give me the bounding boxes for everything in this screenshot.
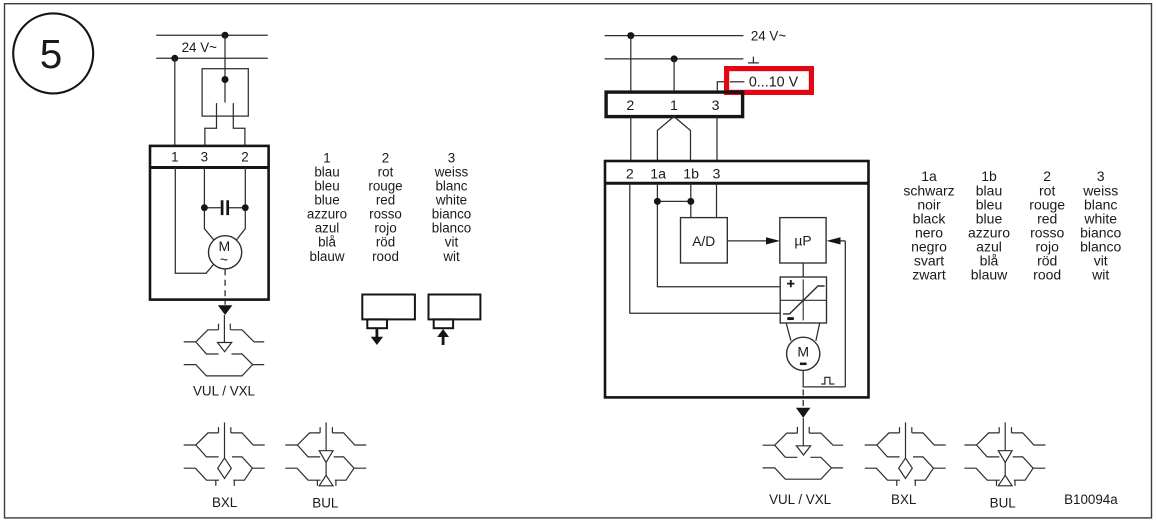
wire 1a to comparator plus input [657,183,779,287]
stem arrow head (right) [796,408,810,418]
svg-text:M: M [797,343,809,359]
feedback wire up to microprocessor [844,241,846,387]
actuator symbol stem retract (arrow up) [429,295,481,346]
svg-text:rot: rot [378,164,394,179]
connector label 1 [670,98,678,114]
connector block (right) [606,92,743,117]
svg-text:3: 3 [713,167,721,183]
wire supply neutral line L2 (right) [605,58,744,60]
svg-text:blauw: blauw [971,267,1008,283]
svg-text:vit: vit [445,235,459,250]
terminal label 2 (right) [626,167,634,183]
wire stub inside highlight [730,81,745,83]
valve BUL (left) [285,422,366,486]
svg-text:blå: blå [318,235,336,250]
valve VUL/VXL (right) [763,418,844,479]
svg-text:rojo: rojo [374,221,396,236]
svg-text:blanc: blanc [435,178,467,193]
svg-text:1a: 1a [650,167,666,183]
junction dot on L1 (left) [222,32,229,39]
wire colour table column 2 (right) [1029,168,1065,283]
wire 1b to A/D [690,183,692,218]
terminal label 3 (right) [713,167,721,183]
svg-text:BUL: BUL [990,495,1016,510]
junction dot 1a [654,198,661,205]
wire colour table column 3 (left) [432,150,471,263]
label 24 V~ (right) [751,28,787,43]
svg-text:weiss: weiss [434,164,469,179]
svg-text:3: 3 [448,150,455,165]
svg-text:1: 1 [670,98,678,114]
svg-text:BXL: BXL [212,495,237,510]
label 0...10 V [749,74,799,90]
wire colour table column 1b (right) [968,168,1010,283]
wire L1 to selector primary [224,35,226,102]
label B10094a [1064,492,1118,507]
wire connector 3 to actuator [716,117,718,162]
terminal strip divider (right) [605,182,869,185]
motor M1 (left) [209,236,242,269]
svg-text:0...10 V: 0...10 V [749,74,799,90]
wire microprocessor to comparator [802,263,804,277]
svg-text:blanco: blanco [432,221,471,236]
label BXL (right) [891,492,916,507]
svg-text:röd: röd [376,235,395,250]
junction dot on L2 (right) [671,55,678,62]
highlight box 0...10 V [727,69,812,93]
label BUL (right) [990,495,1016,510]
junction dot 1b [687,198,694,205]
svg-text:~: ~ [220,252,228,268]
wire 3 to A/D [716,183,718,218]
pulse symbol [821,377,834,384]
wire connector 1 split to 1b [674,117,691,162]
comparator / characteristic block [780,277,826,323]
svg-text:rood: rood [372,249,399,264]
svg-text:VUL / VXL: VUL / VXL [769,492,831,507]
svg-text:2: 2 [626,98,634,114]
wires comparator to motor [786,323,820,341]
valve VUL/VXL (left) [184,315,265,376]
selector pin to terminal 3 [205,103,217,146]
svg-text:2: 2 [382,150,389,165]
valve BXL (left) [184,422,265,486]
wire terminal 1 to motor [175,168,213,274]
capacitor C1 [201,200,249,215]
svg-text:1: 1 [171,149,178,164]
wire colour table column 1 (left) [307,150,347,263]
svg-text:wit: wit [1091,267,1109,283]
stem arrow head (left) [218,305,233,315]
svg-text:wit: wit [442,249,460,264]
svg-text:24 V~: 24 V~ [751,28,787,43]
junction dot on L1 (right) [627,32,634,39]
terminal label 1 [171,149,178,164]
direction selector box S1 [202,69,248,116]
label VUL / VXL (right) [769,492,831,507]
dashed actuator stem (right) [802,390,804,408]
wire connector 2 to actuator [630,117,632,162]
svg-text:24 V~: 24 V~ [182,40,218,55]
dashed actuator stem (left) [224,269,226,305]
motor M2 (right) [787,337,820,370]
actuator housing box (left) [150,146,269,300]
svg-text:azzuro: azzuro [307,207,347,222]
wire supply neutral line L2 (left) [156,57,268,59]
actuator housing box (right) [605,161,869,397]
svg-text:2: 2 [626,167,634,183]
svg-text:3: 3 [201,149,208,164]
svg-text:2: 2 [241,149,248,164]
terminal label 3 [201,149,208,164]
wire L2 to terminal 1 [673,59,675,91]
svg-text:A/D: A/D [692,234,715,249]
connector label 3 [712,98,720,114]
wire terminal 3 to motor [204,168,214,241]
wire colour table column 1a (right) [903,168,954,283]
terminal strip divider (left) [150,166,269,169]
svg-text:VUL / VXL: VUL / VXL [193,384,255,399]
wire L2 to terminal 1 [174,58,176,146]
terminal label 1a [650,167,666,183]
wire L1 to terminal 2 [630,36,632,91]
svg-text:µP: µP [794,234,811,249]
A/D converter U1 [681,218,728,263]
valve BUL (right) [964,422,1045,486]
svg-text:1: 1 [323,150,330,165]
arrow A/D to microprocessor [727,237,780,244]
wire 2 to comparator minus input [630,183,780,313]
svg-text:BXL: BXL [891,492,916,507]
feedback arrow into microprocessor [827,237,846,244]
svg-text:bianco: bianco [432,207,471,222]
microprocessor U2 [780,218,826,263]
selector pin to terminal 2 [233,103,245,146]
terminal label 2 [241,149,248,164]
valve BXL (right) [865,422,946,486]
svg-text:BUL: BUL [312,495,338,510]
svg-text:red: red [376,193,395,208]
wire motor to feedback corner [803,370,845,387]
connector label 2 [626,98,634,114]
svg-text:3: 3 [712,98,720,114]
svg-text:blau: blau [314,164,339,179]
svg-text:blue: blue [314,193,339,208]
svg-text:bleu: bleu [314,178,339,193]
wire connector 1 split to 1a [657,117,674,162]
label BXL (left) [212,495,237,510]
svg-text:rouge: rouge [368,178,402,193]
label BUL (left) [312,495,338,510]
wire terminal 3 signal 0...10V [717,82,724,91]
svg-text:zwart: zwart [912,267,946,283]
svg-text:rood: rood [1033,267,1061,283]
svg-text:1b: 1b [683,167,699,183]
svg-text:white: white [435,193,467,208]
label VUL / VXL (left) [193,384,255,399]
wire colour table column 3 (right) [1080,168,1121,283]
label 24 V~ (left) [182,40,218,55]
junction dot on L2 (left) [171,55,178,62]
wire terminal 2 to motor [236,168,245,241]
ground symbol [748,57,759,63]
wire colour table column 2 (left) [368,150,402,263]
jumper wire 1a-1b [657,200,690,202]
svg-text:B10094a: B10094a [1064,492,1118,507]
actuator symbol stem extend (arrow down) [362,295,415,346]
svg-text:blauw: blauw [310,249,345,264]
svg-text:5: 5 [40,31,63,77]
terminal label 1b [683,167,699,183]
figure number 5 [13,13,93,93]
wire 24V~ supply line L1 (right) [605,35,744,37]
wire 24V~ supply line L1 (left) [156,34,268,36]
svg-text:azul: azul [315,221,340,236]
svg-text:rosso: rosso [369,207,402,222]
